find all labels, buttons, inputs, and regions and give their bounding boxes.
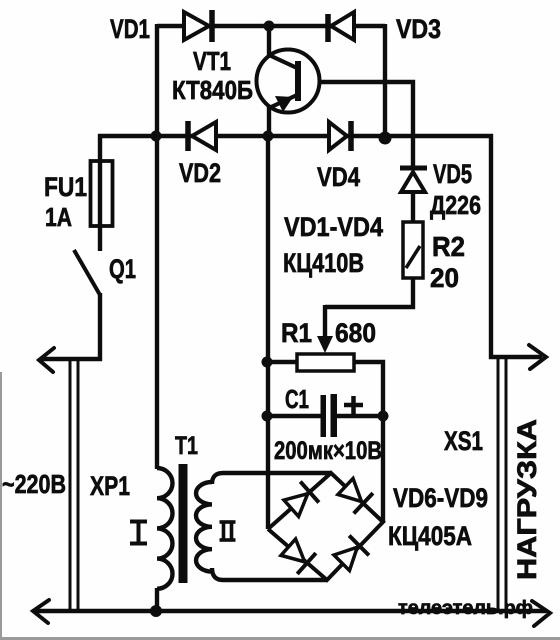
- svg-text:C1: C1: [285, 384, 309, 414]
- transformer T1 primary winding I: [157, 468, 173, 589]
- wire right rail corner x=491 down and out to XS1 arrow: [491, 134, 542, 357]
- svg-text:телеэтель.рф: телеэтель.рф: [398, 598, 533, 619]
- wire C1 left lead y=416: [266, 414, 321, 418]
- wire fuse branch vertical x=100: [98, 134, 102, 251]
- junction node emitter: [263, 131, 274, 142]
- arrow load bottom-right: [532, 601, 550, 626]
- wire VD3 vertical x=385: [383, 24, 387, 140]
- XS1 socket double line left x=498: [497, 358, 500, 610]
- svg-text:VD1-VD4: VD1-VD4: [284, 212, 383, 242]
- resistor R2: [403, 222, 423, 278]
- fuse FU1: [91, 161, 113, 226]
- wire top rail y=26 from left corner to VD3 corner: [157, 24, 385, 28]
- svg-text:Д226: Д226: [430, 190, 481, 220]
- diode VD2: [188, 121, 216, 151]
- arrow mains top-left: [39, 348, 54, 372]
- bridge rectifier VD6-VD9 diamond edges: [268, 473, 383, 580]
- wire center vertical x=268 from emitter node down to bridge left vertex: [266, 134, 270, 529]
- svg-text:VT1: VT1: [193, 46, 231, 76]
- wire secondary bottom y=580 to bridge bottom vertex: [212, 568, 327, 580]
- wire R1 right lead with corner down to bridge right vertex: [353, 362, 383, 523]
- svg-text:VD2: VD2: [179, 158, 221, 188]
- junction node primary bottom: [150, 605, 162, 617]
- wire second rail y=136 from fuse corner to right rail corner: [98, 134, 493, 138]
- svg-text:1А: 1А: [45, 202, 72, 232]
- wire C1 right lead y=416: [337, 414, 385, 418]
- label winding I: [130, 521, 147, 544]
- XP1 plug double line right x=78: [77, 359, 80, 610]
- wire R1 wiper arrow vertical: [323, 305, 327, 345]
- arrow load top-right: [529, 345, 546, 369]
- svg-text:20: 20: [430, 263, 459, 293]
- XP1 plug double line left x=70: [69, 359, 72, 610]
- diode VD5: [400, 168, 427, 192]
- svg-text:200мк×10В: 200мк×10В: [274, 437, 382, 465]
- svg-text:R2: R2: [432, 231, 465, 262]
- wire secondary top y=473 to bridge top vertex: [212, 473, 331, 484]
- wire vertical node-A x=157 from top corner down to lower rail: [155, 24, 159, 138]
- diode VD4: [329, 121, 351, 151]
- svg-text:680: 680: [335, 318, 376, 348]
- transformer T1 secondary winding II: [196, 482, 212, 572]
- wire T1 primary bottom lead x=157: [155, 588, 159, 611]
- svg-text:VD1: VD1: [110, 14, 150, 44]
- junction node B right: [379, 132, 392, 145]
- wire base lead y=83 with corner down to VD5: [300, 82, 413, 168]
- svg-text:XS1: XS1: [444, 426, 483, 456]
- arrowhead of R1 wiper: [317, 336, 333, 353]
- label winding II: [220, 522, 236, 540]
- transistor VT1: [257, 50, 320, 113]
- svg-text:R1: R1: [281, 318, 312, 348]
- resistor R1: [297, 354, 354, 371]
- wire R2 bottom to R1 arrow corner: [325, 278, 413, 307]
- wire R1 left lead: [266, 360, 297, 364]
- switch Q1 blade: [74, 250, 100, 295]
- wire bottom rail y=611: [36, 609, 546, 613]
- wire switch lower vertical x=100: [42, 293, 100, 359]
- bridge diode VD7 (top-right edge): [336, 476, 373, 513]
- capacitor C1 plate right: [331, 394, 338, 437]
- plus sign of C1: [344, 396, 363, 414]
- diode VD3: [328, 12, 354, 42]
- svg-text:КЦ410В: КЦ410В: [283, 248, 364, 278]
- transformer T1 core: [179, 464, 188, 583]
- XS1 socket double line right x=506: [505, 358, 508, 610]
- bridge diode VD8 (left-bottom edge): [279, 537, 316, 574]
- svg-text:VD4: VD4: [317, 162, 360, 192]
- bridge diode VD9 (bottom-right edge): [332, 536, 369, 573]
- diode VD1: [184, 10, 212, 42]
- junction node C1 left: [262, 411, 273, 422]
- svg-text:T1: T1: [175, 432, 198, 460]
- junction node R1 left: [262, 357, 273, 368]
- junction node A left: [151, 131, 162, 142]
- wire VD5 to R2 x=413: [411, 190, 415, 222]
- arrow mains bottom-left: [33, 600, 49, 623]
- wire emitter vertical x=269: [267, 106, 271, 138]
- svg-text:НАГРУЗКА: НАГРУЗКА: [512, 419, 542, 580]
- svg-text:VD3: VD3: [396, 14, 441, 44]
- svg-text:FU1: FU1: [44, 172, 87, 202]
- svg-text:~220В: ~220В: [2, 469, 66, 499]
- svg-text:КЦ405А: КЦ405А: [388, 521, 472, 551]
- svg-text:Q1: Q1: [109, 254, 136, 284]
- svg-text:VD6-VD9: VD6-VD9: [393, 483, 488, 513]
- svg-text:VD5: VD5: [433, 159, 472, 189]
- svg-text:КТ840Б: КТ840Б: [172, 75, 253, 105]
- wire T1 primary top lead x=157: [155, 134, 159, 469]
- junction node C1 right: [378, 411, 389, 422]
- svg-text:XP1: XP1: [90, 471, 130, 501]
- capacitor C1 plate left: [321, 395, 327, 437]
- junction node collector top: [264, 21, 275, 32]
- bridge diode VD6 (left-top edge): [282, 482, 319, 519]
- wire collector vertical x=269: [267, 24, 271, 57]
